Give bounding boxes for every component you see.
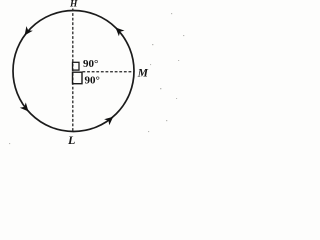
right-angle mark lower xyxy=(73,72,83,84)
wire vertical dashed diameter H-L xyxy=(72,9,74,132)
right-angle mark upper xyxy=(73,62,80,70)
circle xyxy=(13,11,134,132)
svg-text:90°: 90° xyxy=(85,75,100,87)
svg-text:L: L xyxy=(67,133,75,147)
svg-text:H: H xyxy=(69,0,78,10)
arrowhead NE (ccw) xyxy=(116,28,125,37)
svg-text:M: M xyxy=(137,68,149,80)
wire horizontal dashed radius to M xyxy=(83,71,134,73)
arrowhead SW (ccw) xyxy=(20,102,29,111)
svg-text:90°: 90° xyxy=(83,58,98,70)
arrowhead NW (ccw) xyxy=(25,26,33,35)
arrowhead SE (ccw) xyxy=(104,117,113,126)
scan speckles xyxy=(9,13,184,144)
